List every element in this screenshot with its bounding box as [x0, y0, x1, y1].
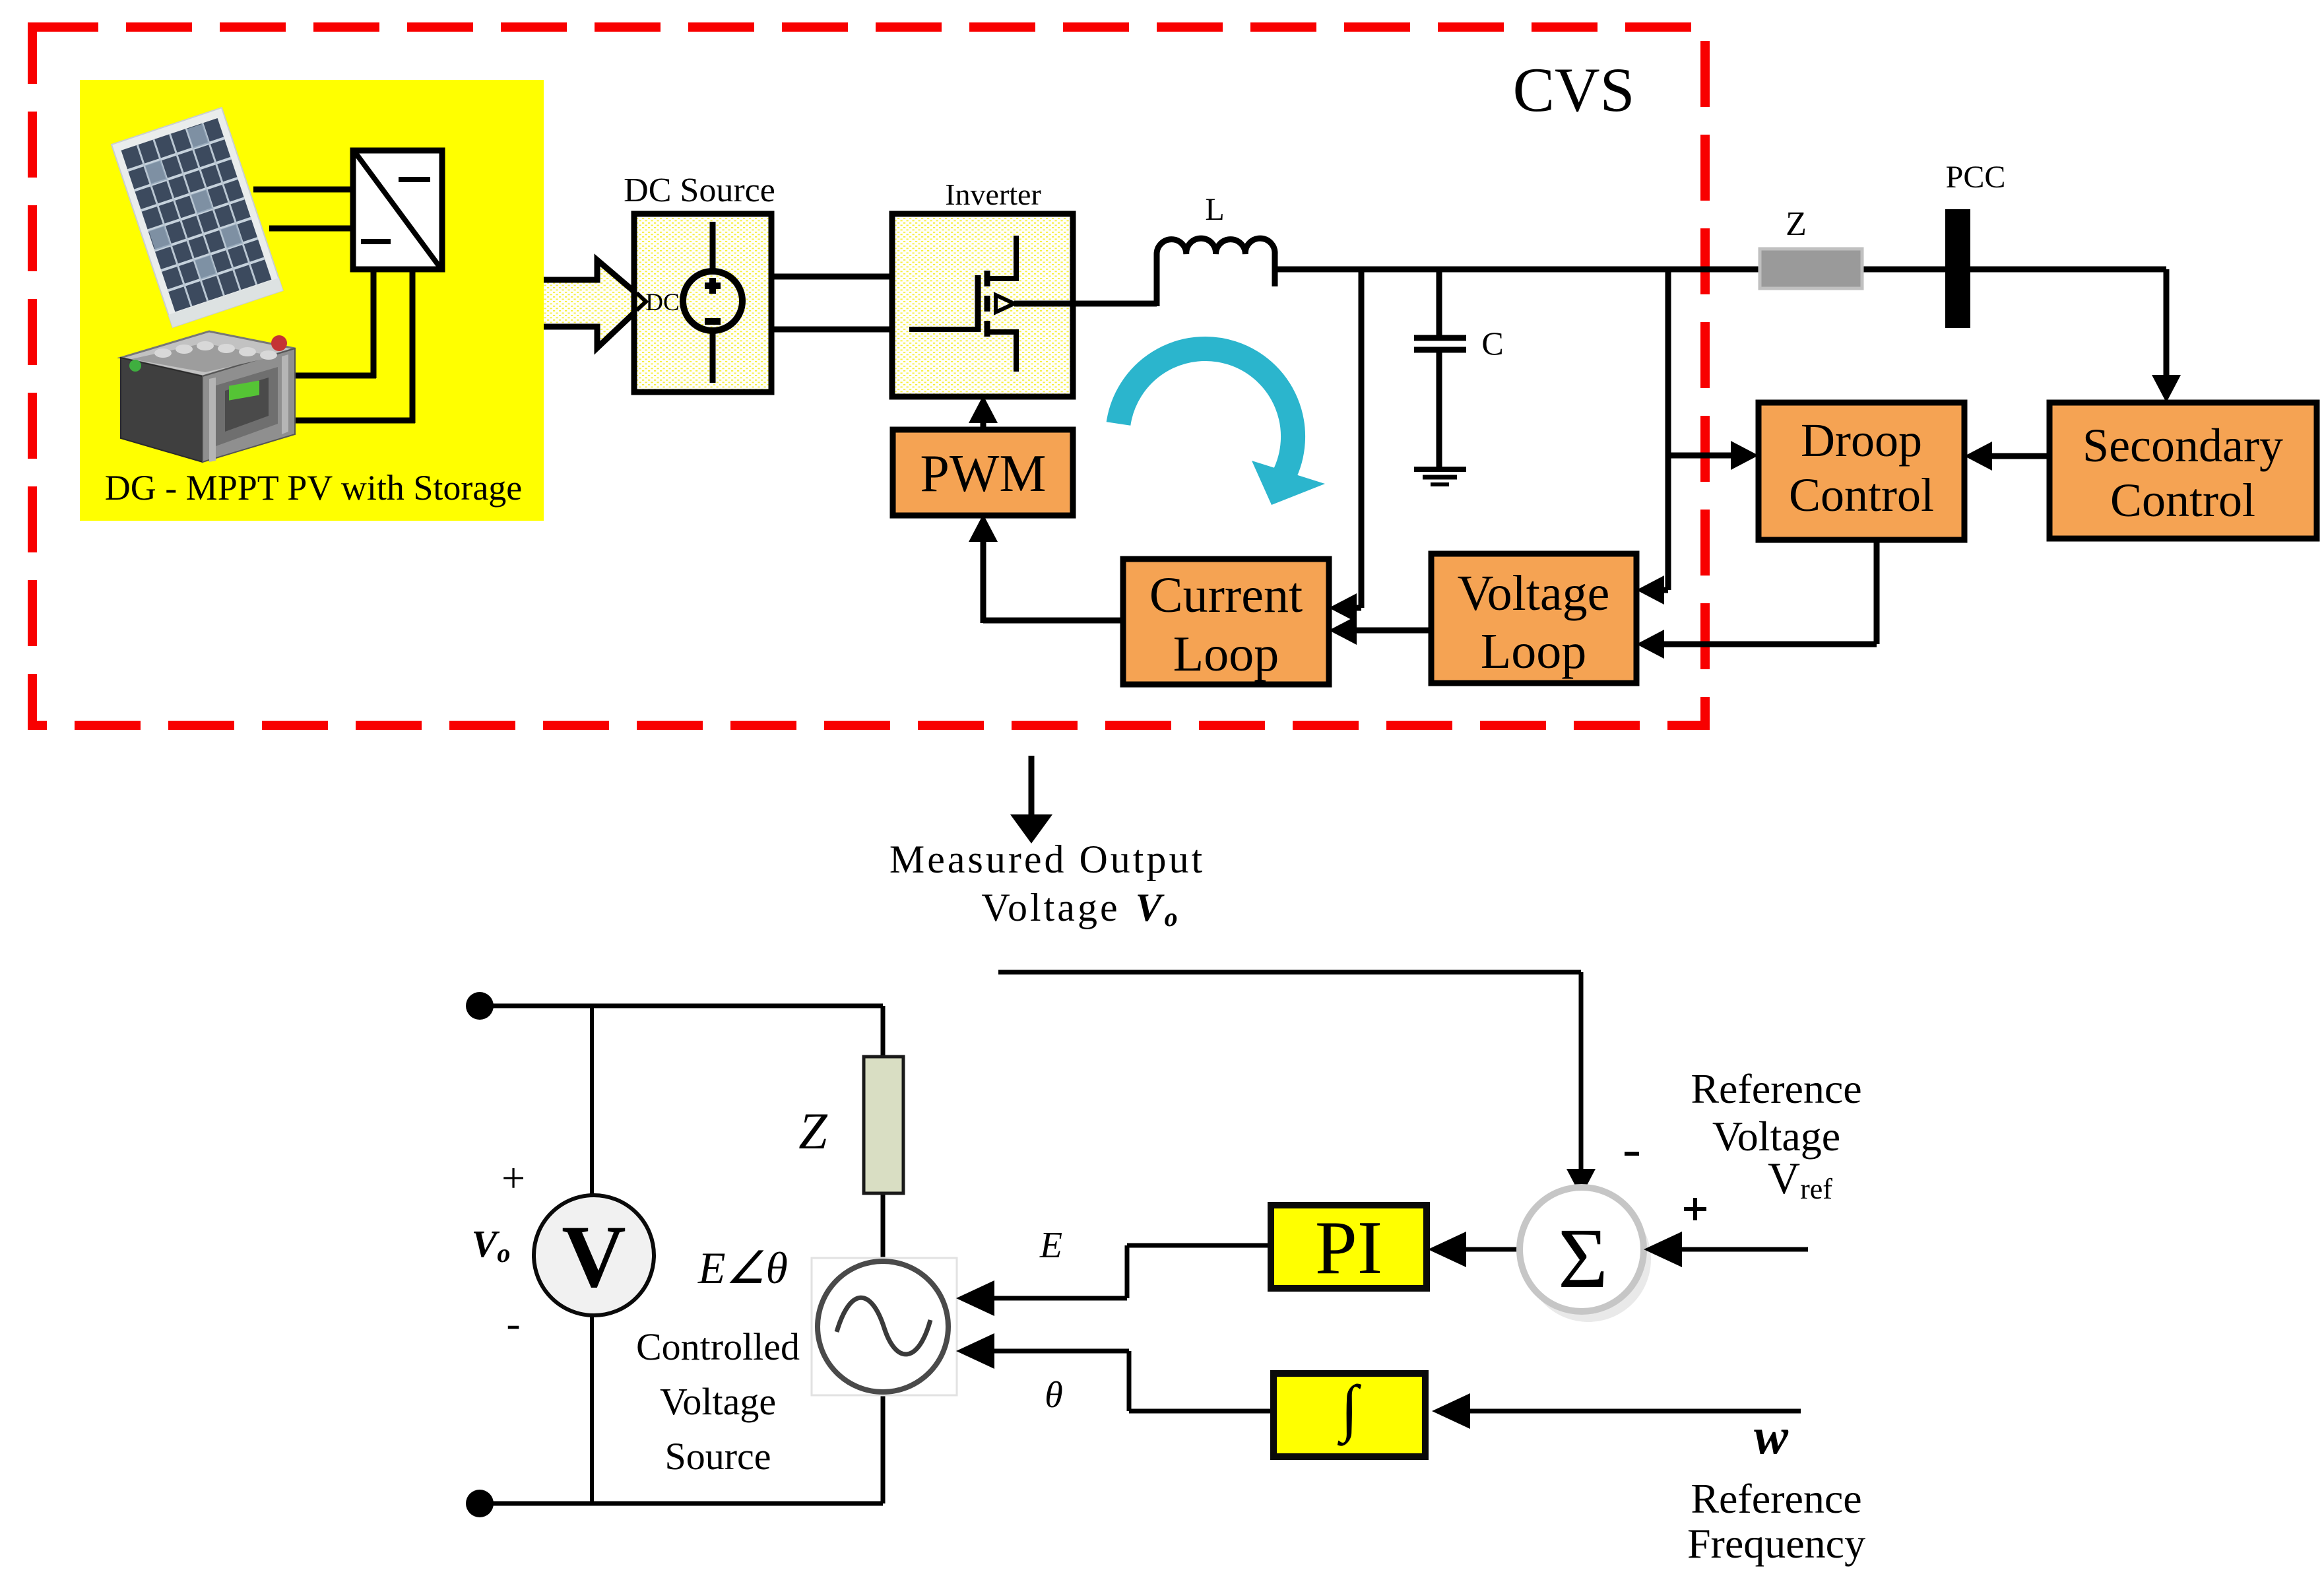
- svg-text:Measured Output: Measured Output: [889, 838, 1205, 881]
- svg-text:PI: PI: [1315, 1206, 1382, 1290]
- dc source circle: [683, 271, 742, 331]
- wire inverter output: [1014, 301, 1157, 307]
- wire Vref to summer: [1669, 1247, 1808, 1252]
- wire DC source to inverter (upper): [771, 274, 892, 280]
- inverter block: [892, 214, 1073, 397]
- wire main ac bus: [1275, 267, 2166, 273]
- Current Loop block: [1123, 559, 1329, 684]
- svg-text:Frequency: Frequency: [1687, 1520, 1865, 1567]
- svg-text:Source: Source: [664, 1435, 771, 1478]
- capacitor C: [1436, 269, 1442, 338]
- svg-text:E: E: [1039, 1225, 1062, 1266]
- battery storage: [121, 331, 295, 462]
- DG block (yellow background): [80, 80, 544, 521]
- impedance Z block: [1760, 249, 1862, 288]
- wire voltage tap: [1665, 269, 1671, 590]
- CVS boundary (red dashed box): [32, 27, 1705, 725]
- summer sigma: [1526, 1197, 1651, 1322]
- svg-text:Z: Z: [798, 1102, 828, 1160]
- svg-text:Voltage Vo: Voltage Vo: [981, 886, 1180, 932]
- dc-dc converter block: [353, 150, 442, 269]
- node B (bottom): [466, 1490, 494, 1517]
- solar panel PV: [112, 108, 283, 327]
- wire w to integrator: [1458, 1409, 1801, 1414]
- wire voltage loop to current loop: [1341, 628, 1431, 634]
- wire droop control to voltage loop: [1874, 537, 1880, 644]
- wire top rail: [480, 1004, 883, 1008]
- svg-text:w: w: [1754, 1407, 1789, 1465]
- wire theta input: [956, 1333, 994, 1369]
- DC source block: [634, 214, 771, 392]
- PWM block: [893, 430, 1073, 515]
- arrow CVS to measured output: [1029, 756, 1035, 818]
- wire converter to battery (right): [410, 269, 416, 423]
- svg-text:C: C: [1481, 325, 1503, 362]
- svg-text:θ: θ: [1045, 1375, 1063, 1416]
- svg-text:Current: Current: [1149, 568, 1303, 623]
- svg-text:Σ: Σ: [1558, 1211, 1608, 1306]
- svg-text:Reference: Reference: [1691, 1475, 1861, 1522]
- PI controller block: [1271, 1205, 1427, 1288]
- block arrow into DC source: [544, 260, 646, 348]
- node A (top): [466, 992, 494, 1020]
- impedance Z vertical block: [864, 1057, 903, 1193]
- Droop Control block: [1759, 403, 1964, 540]
- wire bottom rail: [480, 1501, 883, 1506]
- voltmeter V: [534, 1195, 654, 1315]
- label minus: [1625, 1152, 1639, 1156]
- wire converter to battery (left): [371, 269, 377, 378]
- wire current loop to PWM: [969, 514, 998, 542]
- svg-text:CVS: CVS: [1513, 55, 1635, 125]
- wire PWM to inverter: [981, 404, 986, 430]
- svg-text:Loop: Loop: [1173, 626, 1279, 682]
- svg-text:Controlled: Controlled: [636, 1325, 800, 1368]
- svg-text:Reference: Reference: [1691, 1065, 1861, 1112]
- dc source symbol vertical lead: [710, 222, 716, 383]
- wire voltmeter branch: [590, 1006, 594, 1503]
- svg-text:Control: Control: [2110, 474, 2255, 527]
- svg-text:Loop: Loop: [1481, 624, 1586, 679]
- svg-text:DC: DC: [645, 289, 679, 316]
- integrator block: [1274, 1373, 1425, 1457]
- wire PV to converter (upper): [253, 187, 353, 193]
- PCC bar: [1945, 209, 1970, 328]
- Voltage Loop block: [1431, 554, 1636, 683]
- wire up to inductor: [1154, 254, 1160, 306]
- svg-text:Secondary: Secondary: [2082, 419, 2283, 472]
- svg-text:Voltage: Voltage: [1458, 566, 1610, 621]
- wire PV to converter (lower): [269, 226, 353, 232]
- svg-text:+: +: [501, 1154, 525, 1201]
- wire E input: [956, 1280, 994, 1316]
- control loop arrow (teal): [1118, 348, 1293, 477]
- svg-text:∫: ∫: [1337, 1372, 1362, 1446]
- svg-text:DC Source: DC Source: [624, 172, 775, 209]
- wire PCC to secondary control: [2164, 269, 2170, 392]
- Secondary Control block: [2050, 403, 2317, 539]
- label plus: [1684, 1207, 1706, 1211]
- svg-text:PWM: PWM: [920, 445, 1046, 503]
- wire current tap: [1359, 269, 1365, 608]
- svg-text:Control: Control: [1789, 469, 1934, 521]
- wire tap to droop control: [1668, 453, 1748, 459]
- svg-text:Inverter: Inverter: [945, 178, 1041, 211]
- wire summer to PI: [1452, 1247, 1520, 1252]
- svg-text:PCC: PCC: [1946, 160, 2006, 195]
- svg-text:L: L: [1205, 192, 1224, 227]
- wire source branch: [881, 1006, 886, 1057]
- svg-text:Z: Z: [1786, 205, 1807, 243]
- svg-text:E∠θ: E∠θ: [697, 1243, 788, 1293]
- svg-text:-: -: [506, 1300, 520, 1346]
- controlled voltage source: [812, 1258, 957, 1395]
- svg-text:DG - MPPT PV with Storage: DG - MPPT PV with Storage: [105, 468, 523, 508]
- svg-text:V: V: [562, 1208, 626, 1306]
- wire measured voltage to summer: [998, 970, 1581, 975]
- wire secondary to droop: [1975, 453, 2050, 459]
- ground: [1414, 467, 1466, 472]
- wire DC source to inverter (lower): [771, 327, 892, 333]
- svg-text:Droop: Droop: [1801, 414, 1922, 467]
- svg-text:Voltage: Voltage: [660, 1380, 776, 1423]
- inductor L: [1157, 238, 1275, 254]
- transistor Q1 (mosfet): [909, 327, 978, 332]
- wire inductor to bus: [1272, 251, 1278, 286]
